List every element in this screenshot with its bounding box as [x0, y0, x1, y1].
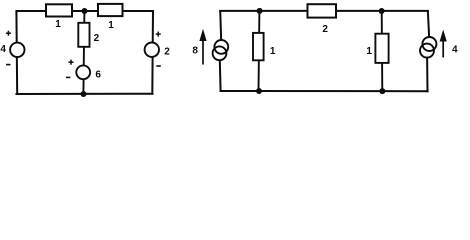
svg-text:1: 1: [366, 46, 372, 57]
arrow of source 4: [440, 30, 447, 58]
wire top rail (right circuit): [219, 10, 428, 12]
resistor 1 (left vertical, right circuit): [253, 33, 264, 60]
wire bottom rail (left circuit): [16, 93, 154, 95]
node dot (top rail left junction, right circuit): [257, 8, 263, 14]
minus sign of source 6: [66, 76, 70, 78]
svg-text:4: 4: [452, 45, 458, 56]
resistor 2 (top horizontal, right circuit): [308, 4, 337, 17]
node dot (top rail junction, left circuit): [82, 8, 88, 14]
node dot (top rail right junction, right circuit): [379, 8, 385, 14]
svg-text:1: 1: [55, 19, 61, 30]
wire bottom rail (right circuit): [220, 90, 429, 92]
svg-text:4: 4: [0, 44, 6, 55]
node dot (bottom rail left junction, right circuit): [256, 88, 262, 94]
resistor 1 (top-right, left circuit): [98, 4, 123, 16]
wire left rail (left circuit): [15, 10, 18, 95]
wire right rail (left circuit): [151, 10, 154, 95]
wire right resistor branch (right circuit): [381, 11, 384, 91]
wire left rail lower segment (right circuit): [219, 60, 222, 93]
current source 8 (left rail): [213, 40, 229, 60]
svg-text:6: 6: [95, 69, 101, 80]
minus sign of source 2: [156, 65, 160, 67]
svg-text:2: 2: [164, 47, 170, 58]
svg-text:1: 1: [270, 46, 276, 57]
svg-text:2: 2: [322, 24, 328, 35]
svg-text:1: 1: [108, 20, 114, 31]
wire right rail upper segment (right circuit): [428, 10, 429, 38]
wire right rail lower segment (right circuit): [426, 57, 428, 92]
arrow of source 8: [199, 29, 206, 65]
resistor 2 (middle vertical, left circuit): [78, 23, 89, 47]
svg-text:2: 2: [94, 33, 100, 44]
svg-text:8: 8: [192, 46, 198, 57]
wire left rail upper segment (right circuit): [220, 10, 221, 41]
plus sign of source 6: [69, 60, 74, 65]
voltage source 4 (left): [10, 43, 24, 57]
node dot (bottom rail junction, left circuit): [81, 91, 87, 97]
plus sign of source 4: [6, 31, 11, 36]
current source 4 (right rail): [420, 37, 436, 58]
resistor 1 (top-left, left circuit): [46, 4, 72, 16]
resistor 1 (right vertical, right circuit): [375, 34, 388, 63]
voltage source 2 (right branch, left circuit): [145, 43, 159, 57]
wire left resistor branch (right circuit): [258, 11, 261, 91]
wire top rail (left circuit): [16, 10, 154, 12]
plus sign of source 2: [156, 32, 161, 37]
wire middle branch (left circuit): [83, 11, 84, 94]
voltage source 6 (middle bottom, left circuit): [76, 65, 90, 79]
node dot (bottom rail right junction, right circuit): [379, 88, 385, 94]
minus sign of source 4: [6, 64, 10, 66]
